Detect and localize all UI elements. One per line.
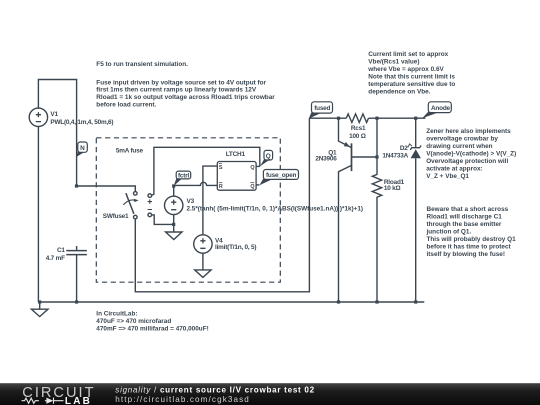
svg-text:Fuse input driven by voltage s: Fuse input driven by voltage source set …	[96, 79, 266, 86]
voltage source V3	[165, 186, 183, 224]
flag fused	[309, 102, 333, 119]
label C1	[46, 247, 66, 262]
svg-text:fused: fused	[314, 105, 330, 112]
wire V1 bottom to ground rail	[37, 126, 39, 302]
voltage source V1	[29, 108, 47, 126]
svg-text:where Vbe = approx 0.6V: where Vbe = approx 0.6V	[367, 66, 444, 73]
svg-text:dependence on Vbe.: dependence on Vbe.	[368, 89, 430, 96]
svg-text:2N3906: 2N3906	[315, 156, 337, 163]
svg-text:PWL(0,4, 1m,4, 50m,6): PWL(0,4, 1m,4, 50m,6)	[50, 119, 113, 126]
annotation CircuitLab units note	[96, 310, 208, 332]
svg-text:overvoltage crowbar by: overvoltage crowbar by	[426, 136, 498, 143]
label Q1	[315, 149, 337, 162]
svg-text:through the base emitter: through the base emitter	[427, 221, 502, 228]
svg-text:drawing current when: drawing current when	[426, 143, 492, 150]
svg-text:Anode: Anode	[431, 105, 451, 112]
svg-text:1N4733A: 1N4733A	[382, 152, 408, 159]
svg-text:V1: V1	[50, 111, 58, 118]
ground rail wire	[38, 301, 424, 303]
svg-text:Current limit set to approx: Current limit set to approx	[368, 51, 448, 58]
label Rload1	[384, 179, 405, 192]
svg-text:Q: Q	[266, 153, 271, 160]
svg-text:first 1ms then current ramps u: first 1ms then current ramps up linearly…	[96, 87, 257, 94]
svg-text:5mA fuse: 5mA fuse	[116, 148, 144, 155]
wire V4 to latch S input	[203, 166, 217, 235]
label V4	[215, 237, 256, 251]
svg-text:470mF => 470 millifarad = 470,: 470mF => 470 millifarad = 470,000uF!	[96, 326, 208, 333]
svg-text:In CircuitLab:: In CircuitLab:	[96, 310, 137, 317]
svg-text:signality / current source I/V: signality / current source I/V crowbar t…	[115, 386, 315, 395]
svg-text:limit(T/1n, 0, 5): limit(T/1n, 0, 5)	[215, 244, 256, 251]
latch Q pin stub	[256, 165, 260, 167]
fuse block dashed box	[96, 138, 280, 282]
switch SWfuse1	[123, 192, 152, 219]
label V1	[50, 111, 113, 126]
zener diode D2	[408, 118, 421, 302]
wire switch bottom to fused node	[135, 118, 309, 292]
label D2	[382, 145, 408, 160]
svg-text:N: N	[80, 145, 85, 152]
svg-text:V_Z + Vbe_Q1: V_Z + Vbe_Q1	[426, 173, 469, 180]
svg-text:Rcs1: Rcs1	[351, 125, 366, 132]
svg-text:http://circuitlab.com/cgk3asd: http://circuitlab.com/cgk3asd	[115, 395, 250, 404]
label V3	[187, 198, 364, 213]
svg-text:V3: V3	[187, 198, 195, 205]
node N flag	[76, 142, 87, 157]
resistor Rcs1	[346, 114, 368, 123]
capacitor C1	[66, 246, 87, 302]
svg-text:SWfuse1: SWfuse1	[103, 213, 129, 220]
flag fuse_open	[259, 170, 298, 186]
voltage source V4	[194, 235, 212, 270]
svg-text:itself by blowing the fuse!: itself by blowing the fuse!	[427, 251, 505, 258]
svg-text:junction of Q1.: junction of Q1.	[426, 229, 472, 236]
svg-text:4.7 mF: 4.7 mF	[46, 255, 65, 262]
wire fused rail top	[309, 117, 425, 119]
svg-text:fuse_open: fuse_open	[266, 172, 296, 179]
svg-text:fctrl: fctrl	[178, 172, 189, 179]
annotation current limit note	[367, 51, 455, 95]
svg-text:Vbe/(Rcs1 value): Vbe/(Rcs1 value)	[368, 59, 419, 66]
svg-text:Rload1 will discharge C1: Rload1 will discharge C1	[427, 214, 503, 221]
annotation zener note	[426, 128, 516, 180]
svg-text:Overvoltage protection will: Overvoltage protection will	[426, 158, 508, 165]
svg-text:This will probably destroy Q1: This will probably destroy Q1	[427, 236, 517, 243]
wire switch control minus to V3 ground node	[152, 215, 174, 225]
svg-text:Q: Q	[250, 165, 254, 171]
latch LTCH1 box	[217, 162, 256, 191]
flag fctrl	[174, 171, 191, 186]
svg-text:D2: D2	[400, 145, 408, 152]
annotation beware note	[426, 206, 517, 258]
flag Q	[260, 150, 273, 166]
svg-text:before it has time to protect: before it has time to protect	[427, 244, 512, 251]
svg-text:2.5*(tanh( (5m-limit(T/1n, 0,: 2.5*(tanh( (5m-limit(T/1n, 0, 1)*ABS(I(S…	[187, 206, 364, 213]
flag Anode	[422, 102, 451, 118]
footer logo resistor-diode glyph	[22, 398, 64, 404]
svg-text:before load current.: before load current.	[96, 102, 156, 109]
svg-text:activate at approx:: activate at approx:	[426, 166, 482, 173]
svg-text:S: S	[219, 165, 223, 171]
resistor Rload1	[372, 118, 381, 302]
svg-text:temperature sensitive due to: temperature sensitive due to	[368, 81, 455, 88]
svg-text:Zener here also implements: Zener here also implements	[426, 128, 511, 135]
svg-text:470uF => 470 microfarad: 470uF => 470 microfarad	[96, 318, 171, 325]
ground at V4	[195, 270, 211, 278]
wire node N to switch SWfuse1	[77, 186, 136, 192]
transistor Q1	[339, 118, 378, 302]
latch Qbar pin stub	[256, 184, 259, 186]
annotation fuse input note	[96, 79, 275, 108]
svg-text:R: R	[219, 184, 223, 190]
wire latch Q feedback to switch control plus	[152, 147, 260, 195]
ground at V3	[166, 224, 182, 239]
svg-text:V(anode)-V(cathode) > V(V_Z): V(anode)-V(cathode) > V(V_Z)	[426, 151, 516, 158]
svg-text:C1: C1	[57, 247, 65, 254]
svg-text:F5 to run transient simulation: F5 to run transient simulation.	[96, 61, 188, 68]
svg-text:Beware that a short across: Beware that a short across	[427, 206, 509, 213]
svg-text:LTCH1: LTCH1	[226, 151, 246, 158]
svg-text:Note that this current limit i: Note that this current limit is	[368, 74, 455, 81]
svg-text:100 Ω: 100 Ω	[349, 133, 366, 140]
svg-text:Q: Q	[250, 184, 254, 190]
latch pin labels	[219, 164, 255, 191]
svg-text:Rload1 = 1k so output voltage: Rload1 = 1k so output voltage across Rlo…	[96, 94, 275, 101]
ground symbol bottom-left	[31, 302, 48, 317]
wire top-left loop V1 top to node N	[38, 80, 76, 187]
svg-text:10 kΩ: 10 kΩ	[384, 185, 401, 192]
wire fctrl node to latch R input with hop	[174, 182, 218, 185]
label Rcs1	[349, 125, 366, 140]
svg-text:LAB: LAB	[65, 396, 92, 405]
